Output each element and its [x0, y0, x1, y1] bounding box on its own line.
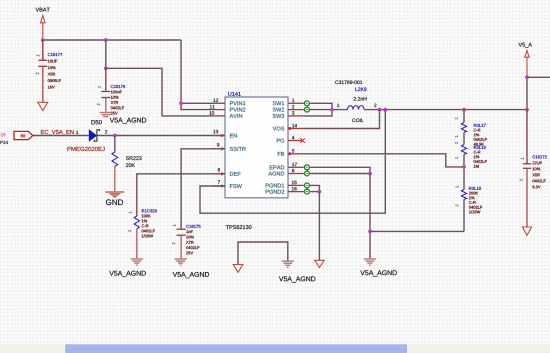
wire diode to EN	[97, 135, 225, 137]
pin 15 stub PGND1	[288, 184, 304, 186]
pin number 16	[292, 187, 297, 190]
wire connector to diode	[33, 135, 89, 137]
junction SW node	[330, 108, 334, 112]
pin 5 stub FB	[288, 149, 303, 155]
pin 1 stub SW1	[288, 102, 304, 104]
wire PGND down	[318, 192, 320, 261]
junction output node divider	[462, 108, 466, 112]
pin name EN	[230, 134, 237, 138]
pin name SW3	[273, 114, 285, 118]
wire PGND2	[310, 191, 319, 193]
wire divider top	[463, 110, 465, 123]
pin 8 stub DEF	[213, 168, 225, 175]
wire PGND1	[310, 185, 319, 191]
pin name VOS	[273, 127, 285, 131]
wire AGND	[310, 173, 370, 175]
pin name SS/TR	[230, 147, 246, 151]
wire to AVIN corner	[106, 68, 213, 116]
pin 9 stub SS/TR	[213, 143, 225, 150]
pin name PVIN1	[230, 101, 245, 105]
pin number 10	[209, 111, 214, 114]
resistor SR223	[112, 152, 142, 167]
ground (open triangle) PGND	[315, 260, 324, 267]
resistor R3L18	[456, 186, 483, 213]
pin 3 stub SW3	[288, 115, 304, 117]
part value TPS62130	[226, 225, 252, 229]
power symbol VBAT	[36, 8, 50, 40]
node donut EPAD	[304, 165, 309, 170]
wire V5_A right	[527, 76, 550, 78]
ground (open triangle) under C18177	[38, 102, 48, 110]
pin number 11	[210, 105, 215, 108]
net label EC_V5A_EN	[41, 130, 74, 135]
inductor L2K9	[335, 81, 376, 123]
pin number 3	[292, 111, 294, 114]
junction AGND	[368, 172, 372, 176]
wire between R3L17 R3L19	[463, 132, 465, 144]
pin number 15	[292, 181, 297, 184]
node donut PGND1	[304, 183, 309, 188]
pin 13 stub EN	[213, 130, 225, 137]
node donut SW1	[304, 101, 309, 106]
ground (open triangle) under C18172	[522, 227, 531, 235]
diode D50	[67, 120, 104, 151]
ground V5A_AGND under R1C329	[109, 259, 145, 277]
wire SR223 to GND	[114, 166, 116, 191]
pin 12 stub	[213, 102, 225, 104]
wire EPAD to AGND vertical	[310, 167, 370, 173]
pin name AGND	[268, 172, 284, 176]
wire R1C329 to ground	[136, 229, 138, 258]
pin number 1	[292, 99, 294, 102]
pin number 2	[292, 105, 294, 108]
wire R3L19 to R3L18	[463, 154, 465, 189]
pin number 17	[292, 163, 297, 166]
pin name PVIN2	[230, 108, 245, 112]
pin 7 stub FSW	[213, 180, 225, 187]
pin 14 stub VOS	[288, 124, 303, 130]
junction output C18172	[525, 108, 529, 112]
pin 11 stub	[213, 109, 225, 111]
capacitor C18177	[36, 40, 62, 102]
junction R3L18 return	[368, 230, 372, 234]
ground (open triangle) tie left	[233, 265, 242, 273]
wire SW2 to inductor	[310, 109, 348, 111]
wire SW1 loop	[304, 103, 332, 116]
pin 2 stub SW2	[288, 109, 304, 111]
pin name AVIN	[230, 114, 243, 118]
wire down to C18176 node	[105, 40, 107, 68]
wire inductor to output	[364, 109, 527, 111]
wire PVIN vertical	[181, 40, 213, 110]
wire FB	[303, 154, 464, 167]
pin name PG	[277, 139, 284, 143]
wire VBAT horizontal	[43, 39, 181, 41]
pin 16 stub PGND2	[288, 191, 304, 193]
ground tie wire	[238, 242, 288, 265]
wire R3L18 down	[463, 199, 465, 231]
junction node C18176	[104, 66, 108, 70]
capacitor C18172	[520, 110, 547, 227]
pin number 6	[292, 169, 294, 172]
wire FSW long run	[200, 110, 385, 214]
wire down to SR223	[114, 136, 116, 153]
resistor R3L17	[455, 118, 487, 146]
wire PVIN1 branch	[181, 102, 213, 104]
pin number 1 of D50	[76, 131, 78, 134]
pin name SW2	[273, 108, 285, 112]
page ref 26	[1, 133, 6, 136]
pin number 12	[213, 99, 218, 102]
node donut PGND2	[304, 189, 309, 194]
pin name EPAD	[270, 165, 285, 169]
ground V5A_AGND under AGND	[360, 259, 396, 276]
node donut AGND	[304, 171, 309, 176]
scrollbar corner	[0, 344, 65, 353]
junction VOS branch	[378, 108, 382, 112]
pin name FSW	[230, 184, 242, 188]
pin 6 stub AGND	[288, 173, 304, 175]
junction VBAT-C18177	[41, 38, 45, 42]
junction V5_A branch	[525, 75, 529, 79]
pin name PGND2	[266, 190, 285, 194]
wire AGND down to ground	[369, 174, 371, 259]
off-page connector IN (EC_V5A_EN)	[14, 131, 33, 139]
ground V5A_AGND tie right	[279, 261, 315, 282]
junction EN / SR223	[113, 134, 117, 138]
junction FSW branch	[383, 108, 387, 112]
pin 17 stub EPAD	[288, 166, 304, 168]
scrollbar track	[0, 344, 550, 353]
scrollbar thumb	[65, 344, 407, 353]
wire DEF down	[137, 174, 225, 216]
pin 10 stub	[213, 115, 225, 117]
capacitor C18175	[172, 225, 200, 259]
pin name PGND1	[266, 183, 285, 187]
resistor R3L19	[455, 142, 487, 168]
junction FB divider	[462, 165, 466, 169]
node donut SW2	[304, 107, 309, 112]
resistor R1C329	[128, 209, 156, 237]
junction PGND	[318, 190, 322, 194]
pin name FB	[278, 152, 284, 156]
junction PVIN1	[179, 101, 183, 105]
junction VBAT-C18176 branch	[104, 38, 108, 42]
pin name DEF	[230, 172, 241, 176]
power symbol V5_A	[519, 43, 532, 110]
pin 4 stub PG with no-connect X	[288, 136, 305, 143]
wire to R3L18 bottom	[370, 230, 464, 232]
ground V5A_AGND (bars) under C18176	[100, 113, 147, 124]
pin number 2 of D50	[105, 130, 107, 133]
ground V5A_AGND under C18175	[173, 259, 209, 278]
capacitor C18176	[97, 68, 125, 114]
pin name SW1	[273, 101, 285, 105]
ground GND (solid triangle)	[105, 192, 124, 205]
page ref P24	[0, 141, 8, 144]
wire SS/TR down	[181, 149, 225, 229]
wire VOS	[303, 110, 380, 129]
op-amp U141 body (IC TPS62130)	[225, 92, 288, 198]
